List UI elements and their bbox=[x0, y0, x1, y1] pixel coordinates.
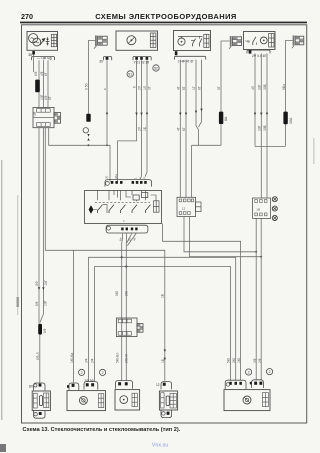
wire: unit C pin2 to relay bbox=[185, 60, 187, 198]
svg-text:12: 12 bbox=[156, 383, 160, 387]
mounting block connector left bbox=[33, 107, 54, 127]
hatched tab of inline block bbox=[137, 324, 143, 333]
wiper switch top bracket bbox=[105, 180, 152, 187]
wires below mounting block bbox=[39, 128, 165, 381]
svg-text:6: 6 bbox=[133, 86, 137, 88]
header rule bbox=[20, 22, 307, 24]
left pin bracket bbox=[225, 380, 246, 389]
svg-text:— ЧФ Чф: — ЧФ Чф bbox=[37, 56, 52, 60]
svg-text:8Ф: 8Ф bbox=[35, 301, 39, 306]
connector number circle right bbox=[153, 65, 159, 71]
svg-text:СХЕМЫ ЭЛЕКТРООБОРУДОВАНИЯ: СХЕМЫ ЭЛЕКТРООБОРУДОВАНИЯ bbox=[95, 12, 237, 21]
wiring harness connector X1 (hatched) bbox=[94, 35, 107, 48]
wire: node H down to relay bbox=[191, 145, 193, 197]
washer/wiper relay unit D bbox=[244, 32, 276, 50]
wire: unit A pin 30 stub bbox=[33, 55, 35, 72]
labels on unit B wires bbox=[103, 86, 152, 131]
wire from X2 down to fuse bbox=[221, 41, 230, 145]
svg-text:12: 12 bbox=[182, 207, 186, 211]
wiper switch body S bbox=[85, 191, 162, 224]
mechanical link dashed line bbox=[95, 202, 150, 204]
grid inside switch right bbox=[153, 201, 159, 212]
wire: generator to block pin 1 bbox=[38, 60, 40, 107]
connector grid of unit C bbox=[204, 34, 209, 47]
svg-text:10А: 10А bbox=[289, 117, 293, 124]
right pin bracket bbox=[84, 382, 98, 390]
schematic frame bbox=[22, 25, 307, 423]
wire: block to wiper switch feed bbox=[49, 128, 110, 182]
wire: node H horizontal bbox=[192, 144, 221, 146]
battery symbol inside unit A bbox=[46, 37, 50, 46]
svg-text:2: 2 bbox=[102, 371, 104, 375]
second bus from switch pin bbox=[94, 267, 230, 382]
wire: switch to washer pump lead 1 bbox=[121, 233, 124, 381]
ground bus from switch left pin bbox=[89, 257, 236, 381]
wires from unit A to fuse block bbox=[34, 55, 48, 108]
right pin bracket bbox=[252, 380, 264, 388]
svg-text:Схема 13. Стеклоочиститель и с: Схема 13. Стеклоочиститель и стеклоомыва… bbox=[23, 427, 181, 433]
small resistor boxes inside switch bbox=[133, 195, 139, 200]
wire: switch pin merge 4 bbox=[127, 233, 136, 246]
U-link wires relay to connector bbox=[184, 217, 261, 257]
fuse F on generator wire bbox=[35, 80, 40, 93]
svg-text:5Ю-Бл: 5Ю-Бл bbox=[116, 353, 120, 363]
svg-text:8А: 8А bbox=[224, 116, 228, 121]
wire: block to fusible link (right) bbox=[42, 128, 44, 314]
wire labels below unit A bbox=[34, 71, 52, 100]
svg-text:52: 52 bbox=[154, 67, 158, 71]
svg-text:6Г: 6Г bbox=[44, 72, 48, 76]
junction dot pin30/bus bbox=[106, 144, 108, 146]
wiper switch bottom bracket bbox=[106, 225, 148, 233]
svg-text:л: л bbox=[121, 220, 125, 222]
svg-text:8Ф: 8Ф bbox=[43, 328, 47, 333]
wire from X1 to ignition feed bbox=[89, 40, 96, 114]
grid tab of relay K bbox=[196, 202, 201, 212]
svg-text:3Ф: 3Ф bbox=[85, 358, 89, 363]
labels wires into wiper motor bbox=[70, 353, 262, 363]
wire: unit D pin3 to connector block bbox=[266, 53, 268, 198]
svg-text:2Ф: 2Ф bbox=[258, 358, 262, 363]
pin bracket 30 of unit B bbox=[99, 57, 112, 64]
svg-text:9Бл: 9Бл bbox=[282, 84, 286, 90]
svg-text:8Ф-Л: 8Ф-Л bbox=[36, 352, 40, 360]
wire: relay to connector T-join lower bbox=[190, 217, 262, 257]
wires converging below switch bbox=[122, 233, 137, 381]
inline connector block on pump wires bbox=[116, 318, 137, 337]
motor circle inside unit D bbox=[260, 37, 267, 44]
wire: switch pin merge 3 bbox=[127, 233, 132, 243]
wire: unit C pin3 to node H bbox=[196, 60, 198, 146]
svg-text:5Ю: 5Ю bbox=[227, 357, 231, 363]
fusible link splice bbox=[38, 314, 47, 383]
switch contacts inside unit C bbox=[191, 36, 202, 46]
svg-text:30: 30 bbox=[105, 175, 109, 179]
output bracket of unit A bbox=[32, 56, 55, 60]
harness connector X2 (hatched, top middle) bbox=[229, 36, 242, 49]
svg-text:2б: 2б bbox=[127, 237, 131, 241]
svg-text:2: 2 bbox=[81, 371, 83, 375]
bottom bracket of level sensor bbox=[161, 410, 172, 418]
svg-text:2Л: 2Л bbox=[138, 127, 142, 131]
svg-text:10Г: 10Г bbox=[44, 300, 48, 306]
labels left wires bbox=[35, 280, 48, 360]
ignition switch unit C bbox=[174, 31, 211, 51]
wire unit B pin 30 down bbox=[106, 60, 108, 145]
switch contact inside unit D bbox=[253, 37, 257, 45]
svg-text:8Ф: 8Ф bbox=[34, 71, 38, 76]
svg-text:1Л: 1Л bbox=[143, 86, 147, 90]
labels above switch bracket bbox=[105, 174, 147, 222]
wire: connector block to rear motor pin B bbox=[260, 218, 262, 380]
svg-text:9 50: 9 50 bbox=[85, 83, 89, 90]
scan smudge left edge bbox=[1, 160, 2, 420]
svg-text:30Б: 30Б bbox=[263, 84, 267, 90]
pin bracket right of unit B bbox=[133, 57, 151, 65]
left pin bracket bbox=[69, 383, 79, 390]
svg-text:8Г: 8Г bbox=[48, 96, 52, 100]
svg-text:2Ф: 2Ф bbox=[91, 358, 95, 363]
wire: switch to washer pump lead 2 bbox=[125, 233, 127, 381]
svg-text:1Б: 1Б bbox=[161, 294, 165, 298]
svg-text:4Г: 4Г bbox=[176, 127, 180, 131]
svg-text:0Г: 0Г bbox=[217, 86, 221, 90]
hatched tab of mounting block bbox=[54, 113, 61, 124]
body bbox=[224, 390, 270, 411]
labels below switch bracket bbox=[119, 237, 137, 241]
svg-text:6Г: 6Г bbox=[182, 86, 186, 90]
inline connector arrows on washer sensor wire bbox=[164, 350, 166, 361]
wire: block to washer level sensor (bus P) bbox=[45, 128, 165, 381]
svg-text:4Г: 4Г bbox=[176, 86, 180, 90]
wire: unit D pin1 to node R bbox=[254, 53, 256, 146]
ground circle mark 3 bbox=[246, 369, 252, 375]
wires connector block down to motor unit bbox=[256, 218, 261, 380]
wire unit B to switch (jog) bbox=[118, 60, 137, 181]
svg-text:6Г: 6Г bbox=[182, 127, 186, 131]
junction dots on U-links bbox=[255, 251, 257, 253]
wire from switch right to washer motor right bbox=[163, 224, 241, 381]
svg-text:1Ю: 1Ю bbox=[237, 357, 241, 363]
svg-text:10Г: 10Г bbox=[44, 280, 48, 286]
svg-text:3Ф: 3Ф bbox=[253, 358, 257, 363]
labels on unit D wires bbox=[251, 84, 286, 131]
svg-text:30Г: 30Г bbox=[257, 84, 261, 90]
diode arrow inside unit A bbox=[40, 39, 45, 46]
inline connector arrows bbox=[87, 134, 89, 141]
svg-text:30Г: 30Г bbox=[257, 125, 261, 131]
intermittent relay K bbox=[177, 197, 196, 216]
wires from unit D down bbox=[255, 53, 286, 198]
wire unit B pin down 2 bbox=[145, 60, 147, 177]
terminal diamond inside switch bbox=[89, 205, 94, 213]
svg-text:2Ю: 2Ю bbox=[125, 290, 129, 296]
washer pump unit bbox=[115, 381, 140, 410]
connector grid of unit B bbox=[150, 33, 156, 47]
connector block middle right bbox=[253, 198, 271, 218]
motor body bbox=[67, 391, 106, 411]
svg-text:Vnx.su: Vnx.su bbox=[152, 443, 168, 449]
ground circle mark 1 bbox=[79, 369, 85, 375]
svg-text:2Л: 2Л bbox=[138, 86, 142, 90]
labels on unit C wires bbox=[176, 86, 221, 131]
connector grid of unit A bbox=[51, 34, 56, 46]
svg-text:8Л: 8Л bbox=[29, 385, 33, 389]
wiper motor unit bbox=[67, 379, 106, 411]
svg-text:1Б: 1Б bbox=[143, 127, 147, 131]
ground screw circles bbox=[272, 197, 277, 221]
junction dot second bus bbox=[125, 265, 127, 267]
svg-text:Чв: Чв bbox=[246, 40, 250, 44]
wire from X3 down right side bbox=[286, 40, 293, 146]
wire: unit A to block pin 2 bbox=[43, 60, 45, 107]
wire: unit A to block pin 3 bbox=[47, 60, 49, 107]
svg-text:2Ю-Ж: 2Ю-Ж bbox=[125, 354, 129, 363]
connector number circle near unit B wires bbox=[127, 71, 133, 77]
wires from unit C down to relay bbox=[180, 60, 221, 198]
connector grid of unit D bbox=[269, 34, 274, 48]
pin 30 of unit A bbox=[32, 51, 35, 55]
svg-text:2Ф 0.4 4Л: 2Ф 0.4 4Л bbox=[252, 54, 266, 58]
wire: unit C pin1 to relay bbox=[179, 60, 181, 198]
svg-text:51: 51 bbox=[128, 73, 132, 77]
inline connector circle on X1 wire bbox=[83, 128, 88, 133]
svg-text:30Б: 30Б bbox=[263, 125, 267, 131]
wire: relay to connector T-join upper bbox=[184, 217, 256, 252]
svg-text:30: 30 bbox=[99, 60, 103, 64]
svg-text:2: 2 bbox=[269, 370, 271, 374]
junction of fuse wire with switch feed bbox=[88, 144, 90, 146]
switch contacts inside body bbox=[93, 191, 156, 214]
wire: connector block to rear motor pin A bbox=[255, 218, 257, 380]
svg-text:8л: 8л bbox=[119, 237, 123, 241]
junction dot bus/wire bbox=[121, 256, 123, 258]
interior lamp / intermittent unit B bbox=[116, 31, 158, 50]
washer level sensor unit bbox=[156, 382, 178, 418]
fuse 10A bbox=[283, 112, 287, 125]
svg-text:2: 2 bbox=[248, 371, 250, 375]
svg-text:1Б: 1Б bbox=[161, 359, 165, 363]
rear wiper motor unit bbox=[224, 380, 270, 411]
scan artifact bottom-left bbox=[0, 444, 6, 452]
svg-text:2Ф 3Ф: 2Ф 3Ф bbox=[84, 379, 94, 383]
wire: unit D pin2 to connector block bbox=[260, 53, 262, 198]
svg-text:3Г: 3Г bbox=[148, 86, 152, 90]
harness connector X3 (hatched, top right) bbox=[292, 35, 304, 48]
svg-text:4Л: 4Л bbox=[251, 86, 255, 90]
svg-text:270: 270 bbox=[21, 12, 33, 21]
svg-text:5Ю: 5Ю bbox=[115, 290, 119, 296]
wire: block to fusible link (left) bbox=[38, 128, 40, 324]
svg-text:8Ф: 8Ф bbox=[35, 281, 39, 286]
svg-text:2Ю: 2Ю bbox=[232, 357, 236, 363]
svg-text:4б: 4б bbox=[133, 237, 137, 241]
wire unit B pin down bbox=[141, 60, 142, 179]
ground circle mark 4 bbox=[267, 369, 273, 375]
pin bracket of unit D bbox=[247, 50, 270, 58]
resistor unit bottom-left bbox=[29, 383, 50, 418]
fuse on X1 wire bbox=[86, 114, 90, 122]
inline connector arrows on left pair bbox=[38, 287, 45, 290]
wire: unit C pin4 merge bbox=[199, 60, 202, 128]
svg-text:30а: 30а bbox=[114, 174, 118, 179]
svg-text:1Г: 1Г bbox=[192, 86, 196, 90]
generator/battery unit A bbox=[27, 32, 58, 51]
fuse 8A bbox=[219, 112, 223, 124]
wire: node R horizontal bbox=[255, 145, 286, 147]
ground circle mark 2 bbox=[100, 369, 106, 375]
svg-text:8Г: 8Г bbox=[198, 86, 202, 90]
svg-text:ЧФ: ЧФ bbox=[33, 111, 37, 116]
pin and bracket of unit C bbox=[175, 51, 206, 63]
branch wire to wiper motor left pin bbox=[73, 250, 75, 382]
